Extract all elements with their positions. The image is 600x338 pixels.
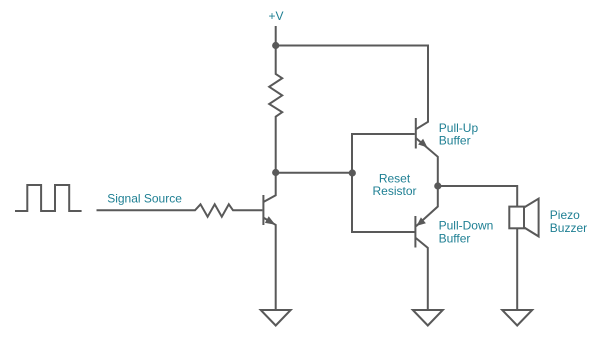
svg-text:Buffer: Buffer	[439, 232, 471, 246]
svg-text:+V: +V	[269, 9, 284, 23]
svg-text:Signal Source: Signal Source	[107, 192, 182, 206]
svg-text:Buffer: Buffer	[439, 134, 471, 148]
svg-text:Buzzer: Buzzer	[550, 221, 587, 235]
svg-text:Pull-Down: Pull-Down	[439, 218, 494, 232]
svg-text:Resistor: Resistor	[372, 184, 416, 198]
